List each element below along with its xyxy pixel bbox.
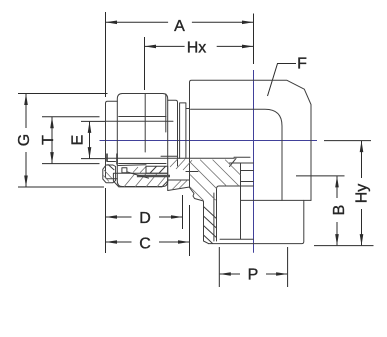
dim A extension line left xyxy=(105,12,107,97)
nut outline xyxy=(117,94,167,187)
ferrule nose section polygon xyxy=(103,165,116,183)
thread engagement thick line xyxy=(137,175,170,177)
nut hex flat top line xyxy=(119,116,166,118)
dim P line segments with arrows xyxy=(220,273,240,275)
centerline horizontal (port axis) xyxy=(100,140,318,142)
dim P right extension line xyxy=(287,247,289,287)
dim E top extension line xyxy=(81,120,105,122)
elbow body section hatch xyxy=(190,160,241,201)
svg-text:P: P xyxy=(248,267,259,284)
engagement hatch xyxy=(172,181,187,190)
dim B line with arrows xyxy=(336,176,338,198)
dim T line with arrows xyxy=(51,117,53,163)
svg-text:D: D xyxy=(139,210,151,227)
internal thread end line xyxy=(220,238,253,240)
internal bore vertical xyxy=(240,163,242,239)
dim G bottom extension line xyxy=(18,186,104,188)
collar mirrored line below axis xyxy=(161,155,177,157)
internal cone diagonal xyxy=(230,158,237,166)
dim C line segments with arrows xyxy=(106,241,132,243)
dim E bottom extension line xyxy=(81,158,105,160)
ferrule front section box xyxy=(122,168,127,173)
internal counterbore line 1 xyxy=(234,156,250,158)
internal step line 3 xyxy=(241,170,254,172)
svg-text:C: C xyxy=(139,235,151,252)
svg-text:T: T xyxy=(40,135,57,145)
body section behind nut xyxy=(170,159,192,170)
thread flank line 4 xyxy=(204,235,213,244)
internal shoulder line xyxy=(219,185,253,187)
thread flank line 1 xyxy=(204,207,217,219)
dim B top extension line xyxy=(296,175,345,177)
nut hex flat bottom line xyxy=(119,163,166,165)
internal counterbore line 2 xyxy=(230,162,254,164)
dim T bottom extension line xyxy=(42,163,100,165)
dim D right extension line xyxy=(182,195,184,229)
svg-text:Hy: Hy xyxy=(353,184,370,204)
dim A line right segment with arrow xyxy=(192,21,253,23)
elbow inner top line with fillet xyxy=(191,109,283,200)
nut mid vertical edge xyxy=(144,94,146,153)
bore top line xyxy=(106,120,173,122)
thread flank line 3 xyxy=(204,226,217,238)
ferrule slant line xyxy=(127,172,149,178)
internal step line 4 xyxy=(241,181,254,183)
svg-text:A: A xyxy=(174,18,185,35)
elbow body outer outline xyxy=(190,80,312,200)
tube stub outline xyxy=(106,101,118,179)
dim Hx extension line left xyxy=(144,37,146,90)
svg-text:B: B xyxy=(331,205,348,216)
bore bottom line xyxy=(106,157,234,159)
ferrule top line xyxy=(118,164,146,167)
dim Hx line left segment with arrow xyxy=(145,45,185,47)
body step top line xyxy=(186,108,190,110)
dim A extension line right (shared with Hx) xyxy=(253,14,255,65)
dim P left extension line xyxy=(218,247,220,287)
tube end chamfer diagonal xyxy=(108,165,114,170)
dim Hy line with arrows xyxy=(361,141,363,178)
svg-text:Hx: Hx xyxy=(187,39,207,56)
dim C right extension line xyxy=(189,205,191,256)
port right edge xyxy=(209,200,304,243)
bottom extension line (B and Hy) xyxy=(314,245,374,247)
shoulder line xyxy=(241,199,312,201)
dim G line with arrows xyxy=(25,94,27,128)
body step bottom line xyxy=(186,171,198,173)
dim Hy top extension line xyxy=(324,140,371,142)
centerline vertical (bottom port axis) xyxy=(253,70,255,253)
tube end cut vertical 2 xyxy=(116,154,118,165)
dim D line segments with arrows xyxy=(106,216,132,218)
nut inner right vertical xyxy=(165,94,167,132)
dim G top extension line xyxy=(18,93,108,95)
port left profile with thread runout xyxy=(190,188,209,244)
dim T top extension line xyxy=(42,116,100,118)
tube end cut vertical 1 xyxy=(106,154,108,162)
svg-text:F: F xyxy=(297,56,307,73)
dim E line with arrows xyxy=(89,122,91,159)
thread flank line 2 xyxy=(204,216,217,228)
collar 1 outline xyxy=(168,100,178,166)
collar 2 (ferrule back) outline xyxy=(180,103,186,158)
dim D left extension line (shared with C) xyxy=(105,188,107,253)
dim A line left segment with arrow xyxy=(106,21,168,23)
body-nut engagement section xyxy=(168,180,190,191)
nut wall hatch xyxy=(124,167,166,187)
ferrule nose hatch xyxy=(104,170,113,182)
ferrule back section quad xyxy=(146,166,168,173)
svg-text:E: E xyxy=(70,135,87,146)
leader line F xyxy=(268,64,297,97)
thread crest line xyxy=(213,193,215,241)
svg-text:G: G xyxy=(16,134,33,146)
tube end ledge xyxy=(107,161,116,163)
nut lower wall section band xyxy=(113,173,167,187)
dim Hx line right segment with arrow xyxy=(217,45,253,47)
thread minor line xyxy=(217,186,220,241)
